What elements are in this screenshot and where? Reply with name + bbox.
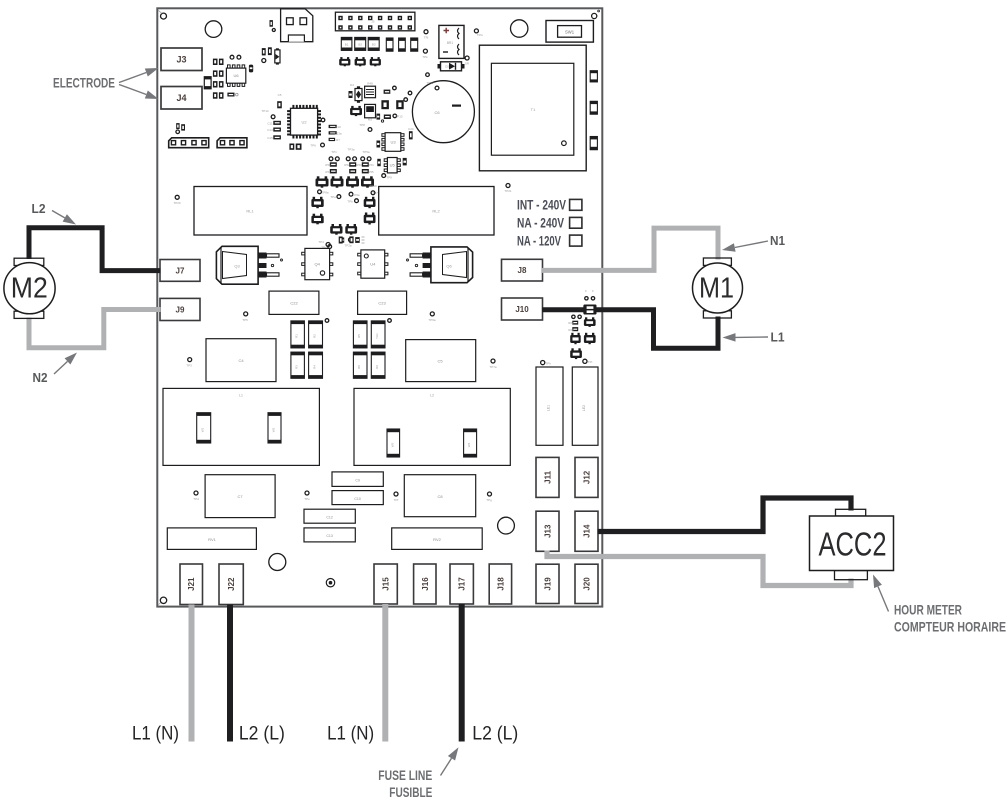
test point TP28 [328, 245, 332, 249]
svg-text:J14: J14 [583, 524, 592, 538]
test point below C18 [262, 59, 266, 63]
svg-text:R8: R8 [357, 365, 361, 369]
resistor R13a (right of U2) [329, 131, 337, 134]
resistor R50 [330, 162, 337, 166]
test point TPD5 (left of D5) [426, 73, 430, 77]
svg-text:TP8: TP8 [359, 123, 365, 127]
pin header J5 (2x8) [335, 12, 415, 31]
svg-text:R3: R3 [295, 365, 299, 369]
svg-text:RL2: RL2 [432, 209, 440, 214]
fuse clip F3 [570, 333, 581, 344]
svg-text:R52: R52 [344, 163, 350, 167]
capacitor C18 (top cluster) [262, 48, 266, 55]
driver U4 (SOIC-6) [358, 250, 388, 278]
capacitor C21 (below U2) [289, 144, 294, 150]
resistor R55 [362, 169, 369, 173]
test point TPL2 (left of BR1) [423, 49, 427, 53]
svg-text:Q3: Q3 [234, 264, 240, 269]
svg-text:R5: R5 [357, 334, 361, 338]
svg-text:J10: J10 [515, 305, 529, 314]
inductor L2 (large box) [354, 388, 510, 465]
pin header P2 (3-pin) [217, 138, 247, 148]
capacitor C6 (large electrolytic) [412, 81, 474, 143]
resistor array near J3 (R6,R7,R30,R31,R58,R59) [213, 59, 224, 99]
capacitor C14 (top row small) [399, 38, 406, 51]
capacitor C15 (left of U2) [273, 135, 281, 139]
svg-text:NA - 120V: NA - 120V [517, 234, 562, 249]
capacitor C12 (top row small) [386, 38, 393, 51]
svg-text:D5: D5 [445, 65, 449, 69]
svg-text:R64: R64 [568, 328, 574, 332]
connector J11 [536, 457, 559, 497]
transistor Q11 (SOT-23 row) [355, 57, 366, 66]
svg-text:TP2a: TP2a [344, 244, 352, 248]
connector J16 [414, 564, 436, 604]
motor M2 [4, 258, 55, 318]
svg-text:L2 (L): L2 (L) [472, 723, 518, 745]
svg-text:J22: J22 [227, 577, 236, 591]
svg-text:TP1: TP1 [331, 150, 337, 154]
test point TP34 [194, 491, 198, 495]
svg-text:Q4: Q4 [315, 262, 321, 267]
mounting hole top-left [161, 13, 167, 19]
capacitor C16 (top row small) [411, 38, 418, 51]
fuse holder F1 cover (on wire) [583, 305, 596, 315]
svg-text:R9: R9 [375, 365, 379, 369]
svg-text:LE1: LE1 [547, 405, 551, 411]
corner tick top-left [159, 11, 163, 14]
transistor Q14 [311, 214, 323, 225]
transistor Q3 (D-PAK) [216, 246, 282, 284]
resistor R20 (below U6) [227, 93, 234, 97]
svg-text:FUSIBLE: FUSIBLE [389, 784, 432, 800]
resistor R51 [330, 169, 337, 173]
svg-text:TP7a: TP7a [489, 365, 497, 369]
svg-text:R55: R55 [368, 170, 374, 174]
svg-text:Q6: Q6 [446, 264, 452, 269]
relay RL2 [379, 187, 494, 236]
capacitor C10 (stack) [332, 491, 383, 505]
test point TP20 (left of RL1) [175, 195, 179, 199]
svg-text:C4: C4 [238, 358, 244, 363]
PCB board outline [157, 8, 602, 606]
svg-text:L1 (N): L1 (N) [132, 723, 179, 745]
test point TP38 [541, 361, 545, 365]
arrow FUSE LINE to wire [441, 747, 459, 775]
wire N2 (gray, M2 to J9) [29, 310, 161, 348]
test point TP32 [188, 358, 192, 362]
test point TP27 [349, 238, 353, 242]
test points TP3 TP4 [346, 157, 350, 161]
svg-text:R2: R2 [313, 334, 317, 338]
mounting hole bottom-left [160, 597, 166, 603]
diode D4 [350, 83, 362, 103]
connector J20 [575, 564, 598, 603]
connector J7 [160, 260, 200, 282]
svg-text:RV2: RV2 [433, 537, 441, 542]
resistor R44 [349, 91, 353, 98]
svg-text:J19: J19 [544, 577, 553, 591]
svg-text:M1: M1 [699, 272, 734, 304]
capacitor C13 (left of U2) [273, 128, 281, 132]
svg-text:M2: M2 [11, 273, 48, 305]
resistor R10 (right of U2) [329, 125, 337, 128]
capacitor C30 (above U4) [349, 236, 353, 243]
svg-text:SW1: SW1 [565, 29, 575, 34]
test point TP9 (below U5) [382, 174, 392, 180]
svg-text:J21: J21 [187, 577, 196, 591]
svg-text:J18: J18 [496, 577, 505, 591]
svg-text:INT - 240V: INT - 240V [517, 198, 567, 213]
svg-text:TPi: TPi [588, 360, 593, 364]
capacitor C7 [205, 475, 275, 518]
capacitor bank right (C29-C32) [353, 319, 391, 379]
connector J21 [180, 564, 203, 605]
svg-text:L2: L2 [32, 201, 46, 216]
transistor Q10 (SOT-23 row) [339, 57, 350, 66]
svg-text:C13: C13 [326, 534, 332, 538]
test point TP14 (left of U2) [261, 109, 275, 119]
svg-text:TP5a: TP5a [362, 150, 370, 154]
svg-text:J20: J20 [583, 577, 592, 591]
mounting hole top-right [592, 13, 597, 18]
relay RL1 [194, 187, 307, 236]
test point TP12 [426, 81, 438, 90]
resistor R57 [355, 237, 360, 243]
checkbox NA-240V [570, 217, 582, 228]
svg-text:R54: R54 [368, 163, 374, 167]
svg-text:C10: C10 [335, 125, 341, 129]
svg-text:B2: B2 [358, 43, 362, 47]
svg-text:J8: J8 [518, 266, 527, 275]
comparator U5 (SOIC-6) [384, 158, 400, 173]
fuse clip F4 [584, 333, 596, 344]
svg-text:C11: C11 [267, 122, 273, 126]
svg-text:B3: B3 [372, 43, 376, 47]
svg-text:NA - 240V: NA - 240V [517, 216, 565, 231]
capacitor C22 [269, 291, 319, 314]
arrow N2 to wire [54, 353, 77, 375]
connector J15 [374, 564, 397, 604]
svg-text:L2: L2 [430, 394, 434, 398]
resistor R54 [362, 162, 369, 166]
arrow L2 to wire [52, 211, 76, 225]
svg-text:TPh: TPh [545, 361, 551, 365]
svg-text:J11: J11 [544, 470, 553, 483]
capacitor C12 (stack) [304, 509, 355, 523]
svg-text:HOUR METER: HOUR METER [894, 602, 962, 618]
test point TP-SP1 [272, 29, 275, 32]
svg-text:RV1: RV1 [208, 537, 216, 542]
svg-text:M3: M3 [368, 118, 372, 122]
wire L2 (black, M2 to J7) [29, 228, 161, 271]
arrow HOUR METER to ACC2 [873, 575, 889, 612]
resistor R38 (left of U3) [377, 141, 381, 148]
hour meter ACC2 [810, 509, 894, 579]
capacitor C23 [358, 291, 407, 314]
diode D5 [438, 62, 465, 71]
svg-text:U5: U5 [390, 163, 396, 168]
svg-text:J4: J4 [176, 93, 186, 103]
test points TP1 TP2 [329, 157, 333, 161]
svg-text:TPa: TPa [330, 195, 336, 199]
resistor R53 [349, 169, 356, 173]
transistor Q16 [364, 213, 376, 225]
checkbox INT-240V [570, 199, 582, 210]
arrow N1 to wire [722, 241, 768, 252]
capacitor C22a (below U2) [296, 144, 302, 150]
svg-text:N1: N1 [770, 233, 785, 248]
svg-text:J13: J13 [544, 524, 553, 538]
transistor Q7 (SOT) [350, 106, 362, 116]
test point TP22 [318, 190, 322, 194]
fiducial circle top-left [205, 21, 222, 38]
svg-text:R1: R1 [295, 334, 299, 338]
optocoupler OC2 [331, 176, 344, 187]
fuse LE1 [536, 367, 563, 445]
mounting hole top-center [511, 20, 528, 37]
resistor R33 [384, 90, 391, 94]
svg-text:C23: C23 [378, 301, 386, 306]
svg-text:TP3: TP3 [186, 364, 192, 368]
capacitor C11 (left of U2) [273, 121, 281, 125]
connector J13 [536, 511, 559, 551]
connector J22 [219, 564, 243, 605]
svg-text:TP6a: TP6a [428, 318, 436, 322]
resistor R36 [384, 115, 391, 120]
resistor R39 (left of U5) [377, 159, 380, 166]
svg-text:TPf: TPf [394, 498, 399, 502]
resistor R23 (above Q4) [339, 237, 343, 244]
capacitor C20 (above-left of U2) [277, 101, 282, 108]
resistor R56 [341, 238, 345, 243]
wire L2(L) from J22 [227, 605, 233, 742]
test point TP33 [491, 359, 495, 363]
svg-text:TPj: TPj [424, 36, 429, 40]
svg-text:C13: C13 [267, 128, 273, 132]
test point TP37 [488, 492, 492, 496]
svg-text:R4: R4 [313, 365, 317, 369]
pin header P1 (4-pin) [169, 138, 209, 148]
resistor R52 [349, 162, 356, 166]
diode D6 (near U6) [249, 65, 253, 73]
diode D1 (top cluster) [275, 48, 280, 64]
svg-text:R48: R48 [367, 82, 373, 86]
svg-text:R51: R51 [325, 170, 331, 174]
resistor R64 [572, 327, 578, 331]
svg-text:J7: J7 [176, 266, 185, 275]
bridge rectifier BR1 [439, 25, 464, 58]
svg-text:C12: C12 [326, 516, 332, 520]
connector J9 [160, 298, 200, 320]
svg-text:TPm: TPm [477, 33, 484, 37]
wire ACC2 gray (J13 to ACC2) [547, 551, 851, 586]
svg-text:L1: L1 [771, 330, 785, 345]
wire L1(N) from J15 [382, 604, 388, 742]
resistor R35 [377, 114, 381, 120]
test point TP25 [355, 199, 359, 203]
checkbox NA-120V [570, 235, 582, 246]
svg-text:J5: J5 [371, 20, 375, 24]
svg-text:L1 (N): L1 (N) [327, 723, 374, 745]
test points above fuse F1 [585, 297, 588, 300]
svg-text:TP8a: TP8a [321, 191, 329, 195]
svg-text:C10: C10 [354, 497, 360, 501]
connector J3 [161, 48, 202, 71]
regulator M3 [365, 104, 376, 121]
optocoupler OC4 [361, 176, 374, 187]
capacitor C1 (top row) [341, 37, 352, 50]
svg-text:TPk: TPk [422, 55, 428, 59]
transistor Q6 (D-PAK) [407, 247, 473, 283]
svg-text:J3: J3 [176, 55, 186, 65]
svg-text:LE2: LE2 [582, 405, 586, 411]
connector J4 [161, 87, 202, 110]
capacitor C41 [396, 100, 404, 109]
svg-text:TPd: TPd [193, 497, 199, 501]
motor M1 [693, 258, 743, 318]
svg-text:J9: J9 [176, 305, 185, 314]
svg-text:TPb: TPb [347, 200, 353, 204]
svg-text:J15: J15 [382, 577, 391, 591]
test point TP31 [430, 312, 434, 316]
corner tick bottom-left [159, 602, 162, 605]
fuse LE2 [572, 367, 598, 445]
inductor L1 (large box) [163, 388, 319, 465]
capacitor C40 [381, 100, 389, 109]
svg-text:R7: R7 [336, 138, 340, 142]
arrow ELECTRODE to J3 [119, 68, 159, 83]
svg-text:U6: U6 [234, 73, 240, 78]
capacitor bank left (C25-C28) [291, 319, 329, 379]
test point TPR1 (right of BR1) [474, 29, 478, 33]
microcontroller U2 (QFP-32) [287, 105, 321, 139]
svg-text:TP5: TP5 [242, 318, 248, 322]
optocoupler OC1 [316, 176, 329, 187]
test point TP23 [337, 195, 341, 199]
transformer T1 [479, 45, 586, 171]
test point TP13 [393, 114, 397, 118]
resistor R48 [365, 82, 376, 98]
svg-text:L1: L1 [239, 394, 243, 398]
svg-text:B1: B1 [345, 43, 349, 47]
connector J19 [536, 564, 559, 603]
connector J10 [502, 298, 543, 320]
svg-text:C22: C22 [290, 301, 298, 306]
test points TP5 TP6 [361, 157, 365, 161]
svg-text:R63: R63 [568, 321, 574, 325]
test point TP30 [244, 312, 248, 316]
resistor R29 (left edge) [181, 124, 185, 130]
capacitor C3 (top row) [368, 37, 379, 50]
capacitor C9 (stack) [332, 472, 383, 487]
svg-text:TPg: TPg [486, 498, 492, 502]
test point TP39 [583, 359, 587, 363]
resistor R60 (right edge) [590, 71, 597, 82]
svg-text:J17: J17 [458, 577, 467, 591]
svg-text:TP9: TP9 [386, 176, 392, 180]
wire L2(L) fuse line from J17 [459, 604, 465, 742]
connector J17 [450, 564, 473, 604]
arrow L1 to wire [723, 333, 769, 342]
wire L1 (black, J10 to M1) [542, 310, 718, 349]
svg-text:R53: R53 [356, 163, 362, 167]
capacitor C4 [206, 339, 276, 382]
connector SP1 (keyed plug top-left) [281, 9, 313, 42]
resistor R28 (left edge) [176, 123, 179, 129]
connector J14 [575, 511, 598, 551]
svg-text:C5: C5 [437, 359, 443, 364]
connector J18 [489, 564, 511, 604]
svg-text:TPe: TPe [304, 497, 310, 501]
svg-text:J12: J12 [583, 470, 592, 484]
svg-text:F: F [592, 289, 594, 293]
test point TP16 [176, 130, 180, 134]
svg-text:D4: D4 [350, 83, 354, 87]
wire ACC2 black (J14 to ACC2) [598, 498, 852, 532]
varistor RV2 [392, 528, 483, 550]
svg-text:J16: J16 [421, 577, 430, 591]
resistor R61 (right edge) [590, 101, 597, 114]
svg-text:C15: C15 [267, 136, 273, 140]
varistor RV1 [167, 528, 256, 550]
svg-text:C8: C8 [437, 494, 443, 499]
op-amp U6 (SOIC-8 near J3) [226, 65, 245, 86]
capacitor C13 (stack) [304, 528, 355, 542]
capacitor C5 [406, 340, 476, 382]
test point TP24 [349, 192, 353, 196]
svg-text:RL1: RL1 [246, 209, 254, 214]
svg-text:TP9a: TP9a [352, 193, 360, 197]
test point TPR2 (right of BR1) [465, 56, 469, 60]
svg-text:ELECTRODE: ELECTRODE [53, 75, 115, 91]
test point TP11 [321, 118, 325, 122]
svg-text:C5: C5 [278, 93, 282, 97]
capacitor C8 (right) [404, 475, 475, 517]
svg-text:U3: U3 [390, 140, 396, 145]
test point TP36 [394, 492, 398, 496]
capacitor C24 (right of U3) [409, 131, 413, 139]
svg-text:C13a: C13a [334, 132, 342, 136]
capacitor C17 (banded, near J4) [204, 77, 211, 89]
resistor R40 (right of U5) [403, 158, 407, 166]
svg-text:BR1: BR1 [447, 41, 453, 45]
wire L1(N) from J21 [189, 605, 195, 742]
svg-text:W4: W4 [467, 442, 471, 447]
optocoupler OC3 [346, 176, 359, 187]
svg-text:TP21: TP21 [504, 189, 512, 193]
svg-text:N2: N2 [33, 370, 48, 385]
svg-text:W1: W1 [201, 427, 205, 432]
transistor Q13 [311, 197, 323, 208]
capacitor C2 (top row) [355, 37, 366, 50]
fuse clip F5 [570, 348, 582, 359]
test point TP7 (below clips) [372, 188, 385, 195]
transistor Q17 [330, 224, 342, 235]
fiducial target bottom [326, 579, 334, 587]
svg-text:ACC2: ACC2 [819, 526, 887, 563]
driver Q4 (SOIC-6) [302, 248, 333, 279]
wire N1 (gray, J8 to M1) [542, 228, 718, 270]
test points TP40 TP41 [572, 315, 575, 318]
svg-text:FUSE LINE: FUSE LINE [378, 767, 432, 783]
fuse clip F2 [584, 317, 596, 327]
svg-text:TP10: TP10 [369, 184, 377, 188]
test points TP near U6 [230, 55, 234, 59]
arrow ELECTRODE to J4 [119, 85, 159, 100]
capacitor C19 (top cluster) [268, 47, 272, 55]
svg-text:W2: W2 [272, 427, 276, 432]
